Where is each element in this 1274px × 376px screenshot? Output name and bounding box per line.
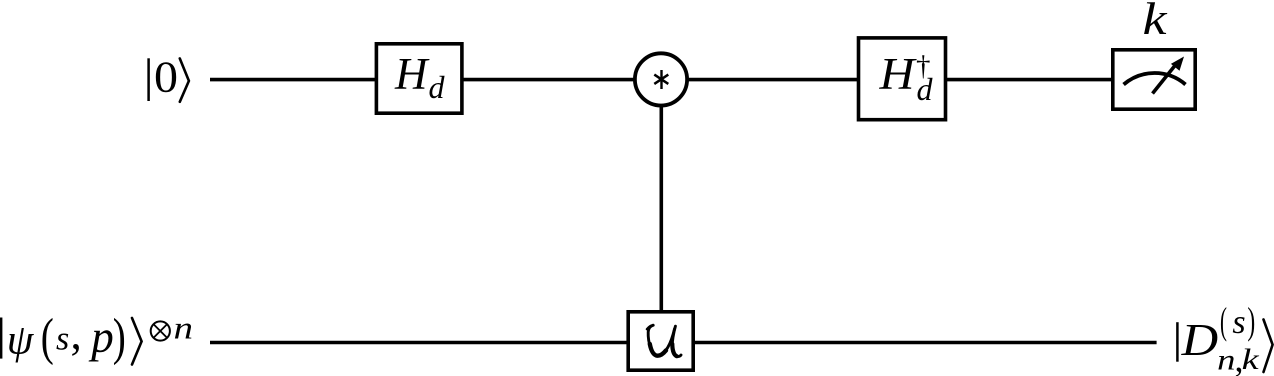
svg-text:p: p <box>88 312 114 362</box>
gate Hd <box>376 44 462 113</box>
svg-text:,: , <box>71 309 82 359</box>
node output ket |D n,k (s)> label <box>1177 300 1272 376</box>
meter (measurement box) <box>1113 50 1195 109</box>
svg-text:(: ( <box>1220 300 1227 342</box>
wire bottom segment 2 <box>693 341 1157 345</box>
svg-text:d: d <box>917 71 934 107</box>
wire top segment 4 <box>946 78 1113 82</box>
svg-text:s: s <box>1232 304 1245 341</box>
svg-text:(: ( <box>41 308 54 365</box>
svg-text:d: d <box>429 69 446 105</box>
gate Hd-dagger <box>859 38 946 120</box>
node q0 ket |0> label <box>149 53 189 102</box>
svg-text:D: D <box>1180 315 1218 365</box>
otimes symbol <box>151 321 170 340</box>
wire bottom segment 1 <box>210 341 629 345</box>
wire vertical control line <box>659 105 663 312</box>
control node * (circle with asterisk) <box>635 53 687 105</box>
svg-text:H: H <box>878 49 917 99</box>
gate U (script U) <box>628 312 693 370</box>
svg-text:0: 0 <box>154 53 178 102</box>
svg-text:ψ: ψ <box>7 317 34 364</box>
svg-text:H: H <box>394 49 430 99</box>
svg-text:): ) <box>1247 300 1255 342</box>
wire top segment 2 <box>463 78 634 82</box>
svg-text:): ) <box>113 308 126 365</box>
svg-text:k: k <box>1143 0 1169 44</box>
wire top segment 3 <box>688 78 858 82</box>
svg-text:n: n <box>1217 343 1235 376</box>
svg-text:n: n <box>174 310 194 346</box>
svg-text:k: k <box>1242 344 1260 376</box>
node q1 ket |psi(s,p)> tensor n label <box>1 308 193 365</box>
wire top segment 1 <box>210 78 377 82</box>
svg-text:s: s <box>56 321 69 358</box>
